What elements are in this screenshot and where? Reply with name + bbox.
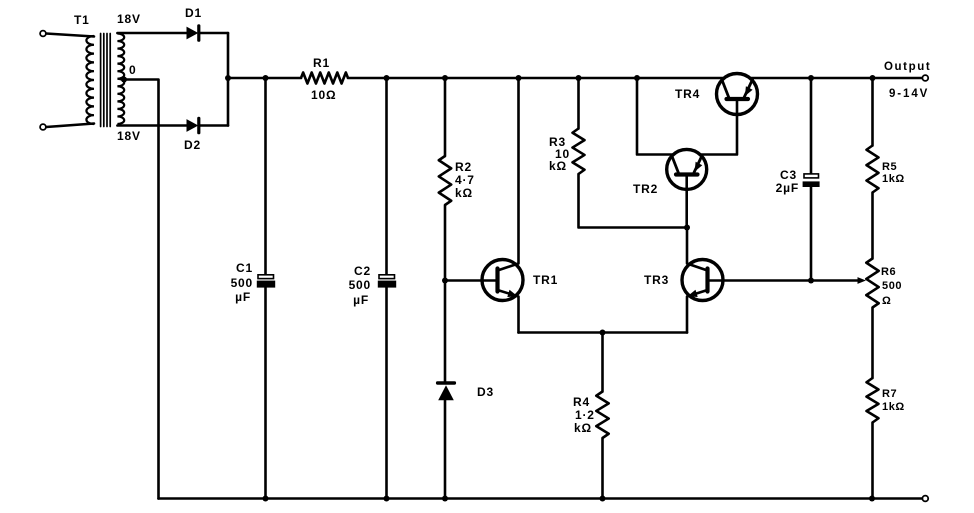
node bus R2 [442,75,448,81]
node D3 bottom rail [442,496,448,502]
wire R3 to TR2 base node [579,174,688,228]
TR1 emitter arrow [507,290,517,297]
svg-text:Output: Output [884,61,931,73]
svg-text:D2: D2 [184,138,201,152]
node TR1 base junction [442,278,448,284]
wire R2 top [444,78,447,156]
transistor TR4 [717,74,758,115]
node bus C1 [263,75,269,81]
svg-text:C2: C2 [354,264,371,278]
capacitor C3 [803,174,820,187]
svg-text:R2: R2 [455,160,472,174]
svg-text:TR1: TR1 [533,273,558,287]
wire D2 cathode to join [199,124,228,127]
capacitor C2 [378,275,396,288]
node bus TR2 branch [634,75,640,81]
wire C1 bottom [264,288,267,499]
TR4 emitter arrow [745,86,753,96]
wire bus TR4 to output [750,77,923,80]
terminal output top [922,75,928,81]
diode D2 [187,118,199,132]
svg-text:1kΩ: 1kΩ [882,401,905,413]
diode D1 [187,26,199,40]
node C2 bottom rail [384,496,390,502]
wire bus rectifier to R1 [228,77,301,80]
transistor TR2 [667,149,707,189]
svg-text:18V: 18V [117,12,141,26]
wire TR1 collector [498,78,519,271]
svg-text:C3: C3 [780,168,797,182]
wire TR2 emitter internal [694,155,702,173]
wire secondary bottom lead [117,124,187,127]
node rectifier output [225,75,231,81]
svg-text:TR3: TR3 [644,273,669,287]
svg-text:kΩ: kΩ [455,186,473,200]
node centre-tap [121,77,127,83]
svg-text:D1: D1 [185,6,202,20]
resistor R3 [573,129,585,174]
svg-text:kΩ: kΩ [549,159,567,173]
node bus R3 [576,75,582,81]
svg-text:R1: R1 [313,56,330,70]
terminal primary top [40,31,46,37]
terminal output bottom [922,496,928,502]
svg-text:500: 500 [882,280,902,292]
wire C3 bottom [810,187,813,281]
wire centre-tap to bottom rail [124,80,159,499]
svg-text:10Ω: 10Ω [311,88,336,102]
svg-text:D3: D3 [477,385,494,399]
node bus C3 [808,75,814,81]
wire TR4 emitter internal [744,80,752,98]
wire TR1 base [445,279,498,282]
wire R3 top [577,78,580,129]
svg-text:µF: µF [353,293,369,307]
wire secondary top lead [117,32,187,35]
wire C1 top [264,78,267,276]
svg-text:µF: µF [235,290,251,304]
svg-text:1·2: 1·2 [575,408,595,422]
resistor R4 [596,392,608,439]
svg-text:0: 0 [129,63,136,77]
svg-text:4·7: 4·7 [455,173,475,187]
R6 wiper arrow [858,277,867,284]
node C1 bottom rail [263,496,269,502]
wire TR4 collector internal [722,80,729,98]
resistor R7 [867,378,879,423]
node bus R5 [870,75,876,81]
wire R4 top lead [601,333,604,392]
wire R5 to R6 [871,193,874,259]
wire C2 top [385,78,388,276]
wire bus to TR2 collector [637,78,673,155]
node C3 bottom junction [808,278,814,284]
svg-text:2µF: 2µF [776,181,799,195]
svg-text:18V: 18V [117,129,141,143]
node R4 bottom rail [600,496,606,502]
wire bus R1 to TR4 [348,77,725,80]
svg-text:C1: C1 [236,261,253,275]
resistor R1 [301,73,348,84]
node bus C2 [384,75,390,81]
TR2 emitter arrow [695,162,703,172]
node TR2 base junction [684,225,690,231]
terminal primary bottom [40,124,46,130]
svg-text:TR2: TR2 [633,182,658,196]
svg-text:R7: R7 [882,388,897,400]
node R4 top [600,330,606,336]
transistor TR3 [682,260,723,301]
wire R5 top [871,78,874,146]
wire D3 to bottom rail [444,400,447,499]
node R7 bottom rail [869,496,875,502]
resistor R6 (potentiometer) [866,259,878,308]
wire bottom rail [159,497,923,500]
wire TR1 emitter [498,290,519,333]
wire R6 to R7 [871,308,874,379]
wire C2 bottom [385,288,388,499]
wire C3 top [810,78,813,174]
resistor R5 [867,146,879,193]
diode D3 [438,383,455,400]
transformer T1 [46,34,124,128]
svg-text:R4: R4 [573,395,590,409]
svg-text:kΩ: kΩ [574,421,592,435]
wire R2 to D3 [444,205,447,383]
svg-text:500: 500 [349,278,371,292]
wire TR3 collector [687,228,708,271]
svg-text:9-14V: 9-14V [889,88,929,100]
node bus TR1 collector [516,75,522,81]
wire TR2 collector internal [672,155,679,173]
capacitor C1 [257,275,275,288]
resistor R2 [439,156,451,205]
svg-text:1kΩ: 1kΩ [882,173,905,185]
wire TR3 emitter [687,290,708,333]
svg-text:R5: R5 [882,161,897,173]
svg-text:R6: R6 [881,266,896,278]
wire TR3 base to R6 wiper [708,279,858,282]
svg-text:TR4: TR4 [675,87,700,101]
transistor TR1 [482,260,523,301]
TR3 emitter arrow [688,290,698,297]
svg-text:T1: T1 [74,13,90,27]
wire rectifier join vertical [227,33,230,126]
svg-text:500: 500 [231,276,253,290]
wire TR2 emitter to TR4 base [701,100,737,155]
wire TR1-TR3 emitter link [519,331,688,334]
wire R7 to bottom rail [871,423,874,499]
wire TR2 base lead [685,176,688,228]
svg-text:Ω: Ω [882,295,891,307]
wire D1 cathode to join [199,32,228,35]
wire R4 bottom lead [601,438,604,499]
